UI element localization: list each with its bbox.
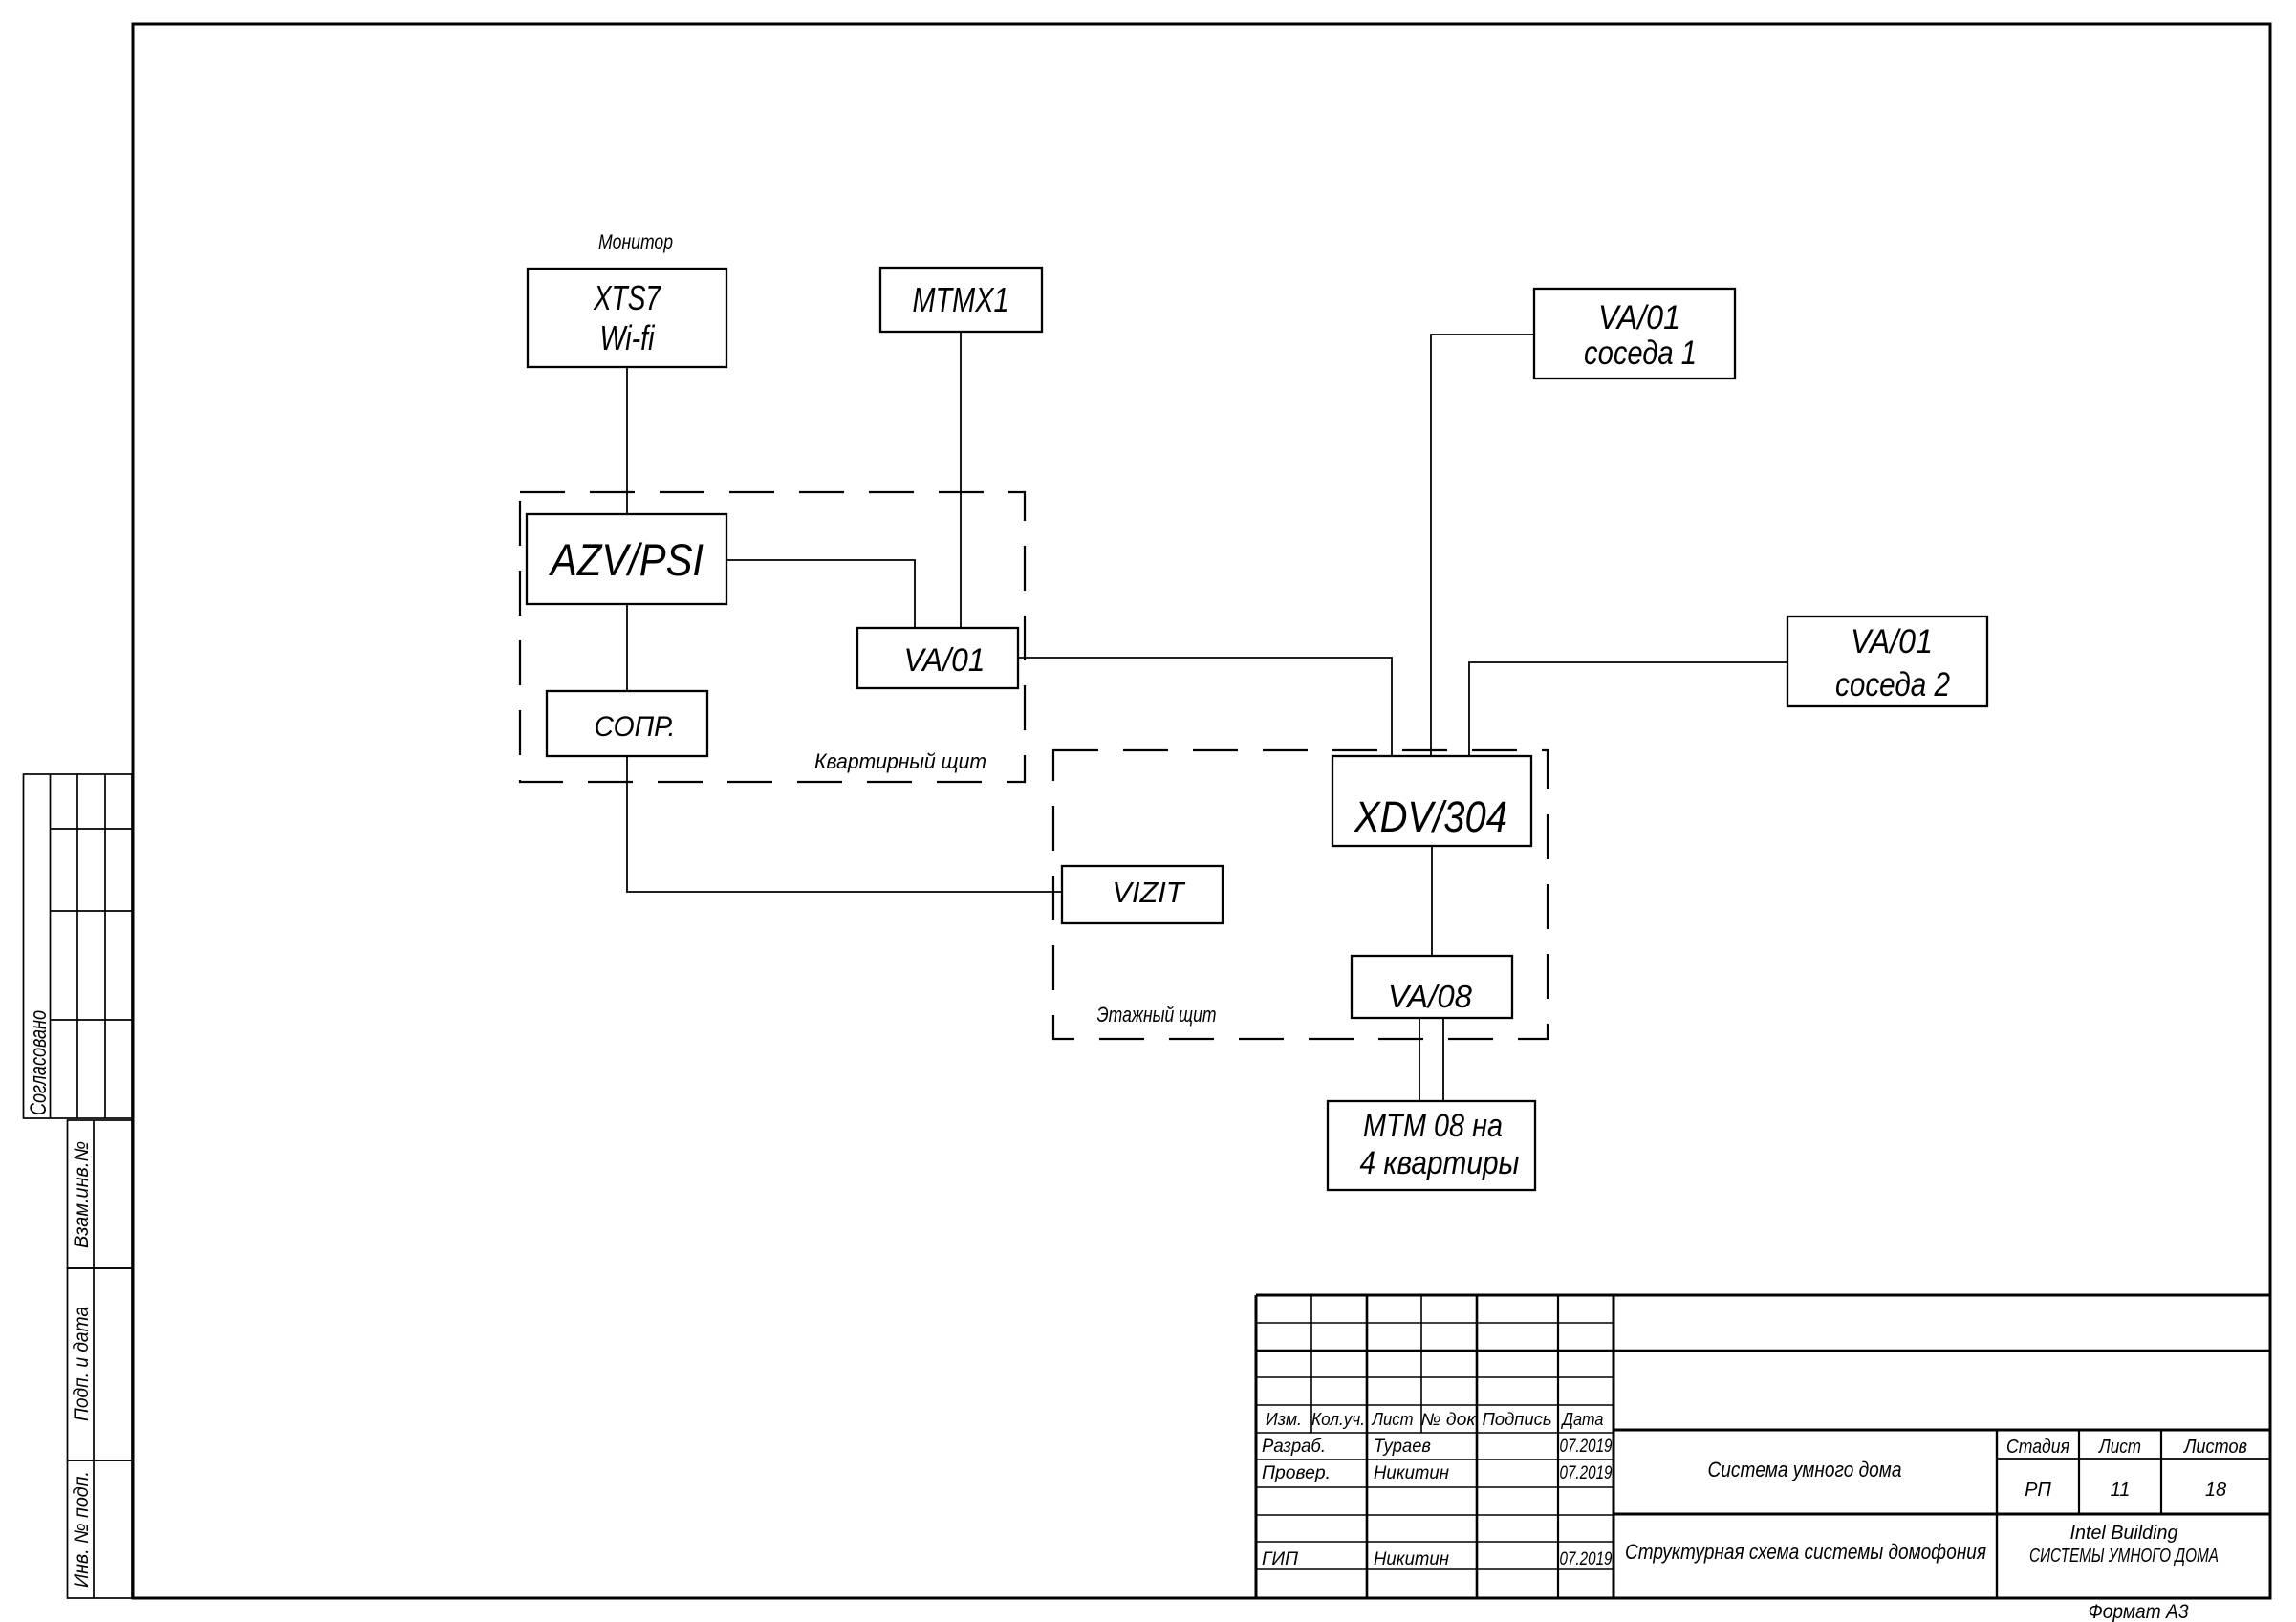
approval strip table (Согласовано) <box>24 774 133 1118</box>
block MTM 08 на 4 квартиры <box>1328 1101 1535 1190</box>
svg-text:07.2019: 07.2019 <box>1560 1549 1613 1569</box>
svg-text:4 квартиры: 4 квартиры <box>1360 1145 1520 1181</box>
block MTMX1 <box>880 268 1042 332</box>
block XDV/304 <box>1332 756 1531 846</box>
svg-text:VA/01: VA/01 <box>1851 623 1933 660</box>
title block stage headers <box>2006 1437 2247 1501</box>
sidebar cell Подп. и дата <box>68 1268 133 1460</box>
svg-text:VA/01: VA/01 <box>904 642 986 679</box>
svg-text:07.2019: 07.2019 <box>1560 1437 1613 1457</box>
svg-text:соседа 1: соседа 1 <box>1584 335 1697 372</box>
svg-text:Intel Building: Intel Building <box>2070 1523 2178 1544</box>
svg-text:Провер.: Провер. <box>1262 1463 1331 1483</box>
svg-text:Никитин: Никитин <box>1374 1549 1450 1569</box>
svg-text:Этажный щит: Этажный щит <box>1097 1003 1217 1027</box>
svg-text:Кол.уч.: Кол.уч. <box>1311 1410 1365 1429</box>
wire XTS7 to AZV/PSI <box>626 367 628 514</box>
svg-text:Взам.инв.№: Взам.инв.№ <box>71 1141 93 1248</box>
svg-text:СИСТЕМЫ УМНОГО ДОМА: СИСТЕМЫ УМНОГО ДОМА <box>2029 1546 2219 1567</box>
svg-text:Монитор: Монитор <box>598 231 673 253</box>
wire AZV/PSI to VA/01 <box>726 560 915 628</box>
apartment panel dashed box Квартирный щит <box>520 492 1025 782</box>
title block signature rows <box>1262 1437 1613 1569</box>
title block header row labels <box>1266 1410 1604 1429</box>
wire XDV/304 to VA/08 <box>1431 846 1433 956</box>
svg-text:VIZIT: VIZIT <box>1113 876 1186 909</box>
block XTS7 Wi-fi monitor <box>528 269 726 367</box>
svg-text:Согласовано: Согласовано <box>26 1010 52 1115</box>
svg-text:Wi-fi: Wi-fi <box>600 318 656 357</box>
svg-text:Система умного дома: Система умного дома <box>1708 1458 1902 1481</box>
svg-text:Лист: Лист <box>2097 1437 2141 1458</box>
svg-text:AZV/PSI: AZV/PSI <box>548 534 704 585</box>
svg-text:Стадия: Стадия <box>2006 1437 2069 1458</box>
wire СОПР. to VIZIT <box>627 756 1062 892</box>
svg-text:Инв. № подп.: Инв. № подп. <box>71 1471 93 1588</box>
block VIZIT <box>1062 866 1223 923</box>
svg-text:Формат А3: Формат А3 <box>2089 1601 2189 1622</box>
floor panel dashed box Этажный щит <box>1053 750 1548 1039</box>
svg-text:Подп. и дата: Подп. и дата <box>71 1307 93 1421</box>
svg-text:MTMX1: MTMX1 <box>913 280 1009 319</box>
svg-text:ГИП: ГИП <box>1262 1549 1298 1569</box>
wire VA/01 to XDV/304 <box>1018 658 1392 756</box>
svg-text:18: 18 <box>2205 1480 2226 1501</box>
wire XDV/304 to VA/01 соседа 2 <box>1469 662 1787 756</box>
svg-text:РП: РП <box>2025 1480 2051 1501</box>
block VA/08 <box>1352 956 1512 1018</box>
block VA/01 соседа 2 <box>1787 616 1987 706</box>
title block grid <box>1256 1295 2270 1598</box>
svg-text:XDV/304: XDV/304 <box>1354 792 1507 841</box>
wire VA/08 to MTM 08 pair a <box>1419 1018 1420 1101</box>
svg-text:Изм.: Изм. <box>1266 1410 1302 1429</box>
svg-text:СОПР.: СОПР. <box>595 711 676 743</box>
block VA/01 apartment <box>857 628 1018 688</box>
svg-text:VA/08: VA/08 <box>1388 979 1473 1014</box>
wire VA/08 to MTM 08 pair b <box>1442 1018 1444 1101</box>
svg-text:Дата: Дата <box>1561 1410 1604 1429</box>
svg-text:VA/01: VA/01 <box>1598 299 1680 336</box>
svg-text:11: 11 <box>2111 1480 2131 1501</box>
wire AZV/PSI to СОПР. <box>626 604 628 691</box>
svg-text:Подпись: Подпись <box>1483 1410 1552 1429</box>
svg-text:Никитин: Никитин <box>1374 1463 1450 1483</box>
svg-text:Тураев: Тураев <box>1374 1437 1431 1457</box>
svg-text:Квартирный щит: Квартирный щит <box>814 749 986 773</box>
svg-text:МТМ 08 на: МТМ 08 на <box>1363 1108 1503 1144</box>
svg-text:XTS7: XTS7 <box>593 278 661 317</box>
svg-text:Лист: Лист <box>1372 1410 1414 1429</box>
wire MTMX1 to VA/01 <box>960 332 962 628</box>
svg-text:Разраб.: Разраб. <box>1262 1437 1326 1457</box>
block VA/01 соседа 1 <box>1534 289 1735 378</box>
svg-text:Листов: Листов <box>2182 1437 2247 1458</box>
block СОПР. <box>547 691 707 756</box>
wire VA/01 соседа 1 to XDV/304 <box>1431 335 1534 756</box>
sidebar cell Инв. № подп. <box>68 1460 133 1598</box>
svg-text:№ док: № док <box>1421 1410 1478 1429</box>
svg-text:07.2019: 07.2019 <box>1560 1463 1613 1483</box>
svg-text:Структурная схема системы домо: Структурная схема системы домофония <box>1625 1540 1986 1564</box>
svg-text:соседа 2: соседа 2 <box>1835 666 1950 703</box>
block AZV/PSI <box>527 514 726 604</box>
sidebar cell Взам.инв.№ <box>68 1120 133 1268</box>
